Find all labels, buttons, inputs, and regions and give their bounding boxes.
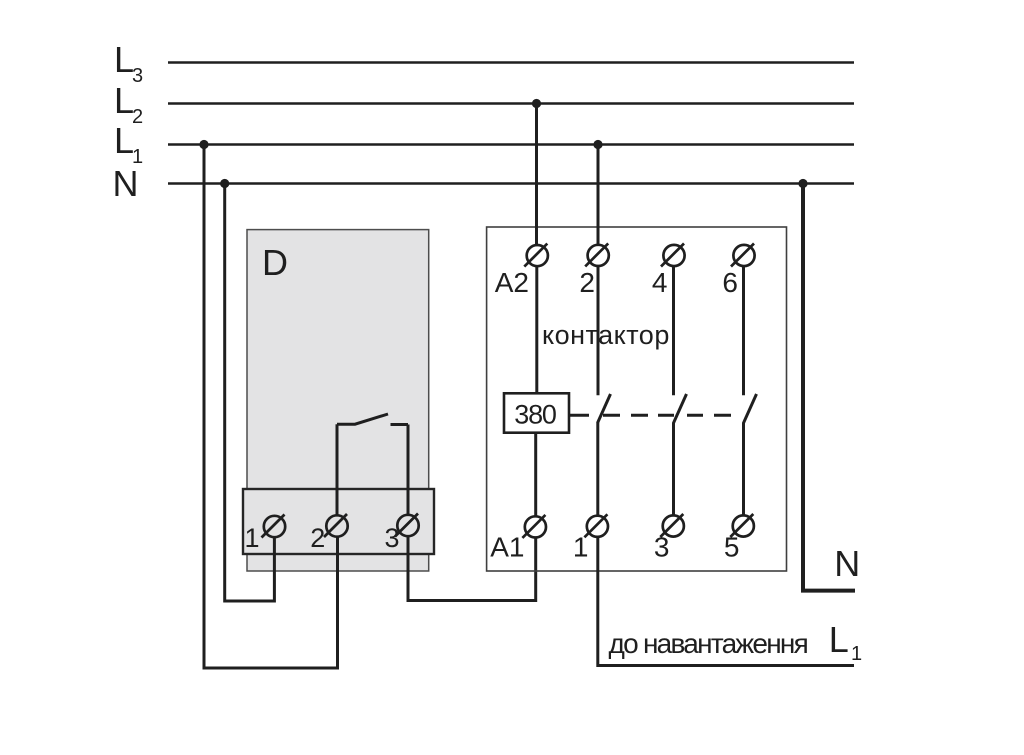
svg-text:2: 2 <box>579 267 595 298</box>
svg-text:380: 380 <box>514 400 556 430</box>
svg-text:D: D <box>262 242 288 283</box>
svg-text:A1: A1 <box>490 532 524 563</box>
wire terminal 4 to main contact 2 <box>672 266 675 395</box>
svg-text:L: L <box>829 619 849 660</box>
wire coil to A1 <box>534 433 537 517</box>
bus line N <box>168 182 854 185</box>
svg-text:3: 3 <box>384 523 399 553</box>
D terminal 1 <box>244 515 285 554</box>
coil box 380 <box>504 393 569 432</box>
contactor terminal 5 <box>724 514 754 563</box>
wire contactor terminal 1 to load L1 <box>598 537 854 666</box>
svg-text:контактор: контактор <box>542 320 670 350</box>
contactor terminal A2 <box>495 244 548 298</box>
internal relay switch of D (between terminals 2 and 3) <box>337 414 408 516</box>
wire terminal 2 to main contact 1 <box>597 266 600 395</box>
wire L1 to contactor terminal 2 <box>597 145 600 245</box>
device D body <box>247 230 429 571</box>
svg-text:1: 1 <box>573 532 589 563</box>
D terminal 3 <box>384 514 418 554</box>
wire N to D terminal 1 <box>225 184 275 602</box>
device D terminal strip <box>243 489 434 554</box>
contactor terminal A1 <box>490 515 546 563</box>
contactor terminal 4 <box>652 244 685 299</box>
contactor terminal 2 <box>579 243 608 298</box>
label L2 <box>114 80 143 128</box>
wire contact 3 to terminal 5 <box>742 423 745 516</box>
contactor box <box>487 227 787 571</box>
label load L1 <box>829 619 862 665</box>
svg-text:5: 5 <box>724 532 740 563</box>
contactor terminal 1 <box>573 514 608 562</box>
wire D terminal 3 to contactor A1 <box>408 536 536 601</box>
svg-text:A2: A2 <box>495 267 529 298</box>
wire contact 2 to terminal 3 <box>672 423 675 516</box>
svg-text:3: 3 <box>654 532 670 563</box>
junction on N feeding load N <box>798 179 807 188</box>
svg-text:N: N <box>834 543 860 584</box>
svg-text:1: 1 <box>244 523 259 553</box>
junction on N feeding device D terminal 1 <box>220 179 229 188</box>
label L3 <box>114 39 143 87</box>
contactor terminal 3 <box>654 514 684 563</box>
mechanical linkage dashed line <box>569 414 731 417</box>
bus line L1 <box>168 143 854 146</box>
main contact 2 blade <box>674 394 687 423</box>
svg-text:1: 1 <box>851 643 862 665</box>
wire A2 to coil <box>535 266 538 393</box>
svg-text:2: 2 <box>310 523 325 553</box>
junction on L1 feeding contactor terminal 2 <box>593 140 602 149</box>
bus line L2 <box>168 102 854 105</box>
junction on L1 feeding device D terminal 2 <box>199 140 208 149</box>
junction on L2 feeding A2 <box>532 99 541 108</box>
bus line L3 <box>168 61 854 64</box>
wire L1 to D terminal 2 <box>204 145 338 669</box>
contactor terminal 6 <box>722 244 754 299</box>
label L1 <box>114 120 143 168</box>
main contact 1 blade <box>598 394 611 423</box>
wire contact 1 to terminal 1 <box>596 423 599 516</box>
wire L2 to A2 <box>535 104 538 246</box>
svg-text:6: 6 <box>722 267 738 298</box>
main contact 3 blade <box>744 394 757 423</box>
D terminal 2 <box>310 514 347 553</box>
svg-text:N: N <box>113 163 139 204</box>
wire N to load <box>803 184 855 591</box>
wire terminal 6 to main contact 3 <box>742 266 745 395</box>
svg-text:4: 4 <box>652 267 668 298</box>
svg-text:до навантаження: до навантаження <box>609 628 808 659</box>
